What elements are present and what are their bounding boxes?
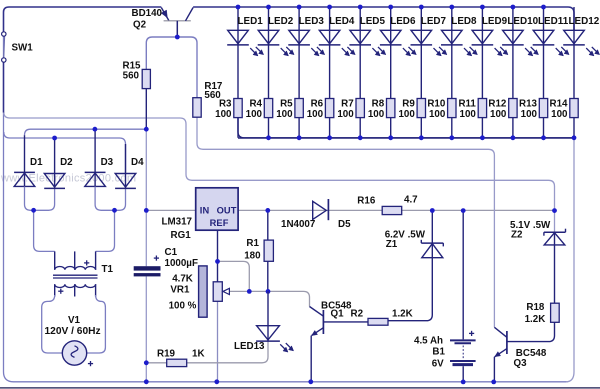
svg-text:LED5: LED5 — [360, 16, 386, 27]
svg-text:LED13: LED13 — [234, 341, 265, 352]
svg-text:LED8: LED8 — [451, 16, 477, 27]
svg-text:LED10: LED10 — [507, 16, 538, 27]
svg-text:R19: R19 — [157, 349, 176, 360]
svg-text:1.2K: 1.2K — [525, 314, 546, 325]
svg-text:LED7: LED7 — [421, 16, 447, 27]
svg-text:4.7: 4.7 — [404, 195, 418, 206]
svg-text:100: 100 — [521, 109, 538, 120]
svg-text:D4: D4 — [131, 157, 144, 168]
svg-text:180: 180 — [244, 251, 261, 262]
svg-text:100: 100 — [215, 109, 232, 120]
svg-text:100: 100 — [460, 109, 477, 120]
svg-text:Z1: Z1 — [386, 239, 398, 250]
svg-text:VR1: VR1 — [170, 284, 190, 295]
svg-text:C1: C1 — [165, 247, 178, 258]
svg-text:LED6: LED6 — [390, 16, 416, 27]
svg-text:R12: R12 — [488, 99, 507, 110]
svg-text:100: 100 — [276, 109, 293, 120]
svg-text:100: 100 — [398, 109, 415, 120]
svg-text:R1: R1 — [246, 238, 259, 249]
svg-text:LED2: LED2 — [268, 16, 294, 27]
svg-text:100: 100 — [368, 109, 385, 120]
svg-text:LED4: LED4 — [329, 16, 355, 27]
svg-text:Q2: Q2 — [133, 20, 147, 31]
svg-text:R13: R13 — [519, 99, 538, 110]
svg-text:LM317: LM317 — [162, 216, 193, 227]
svg-text:1.2K: 1.2K — [392, 308, 413, 319]
svg-text:100: 100 — [551, 109, 568, 120]
svg-text:100: 100 — [246, 109, 263, 120]
svg-text:OUT: OUT — [217, 205, 237, 215]
svg-text:R3: R3 — [219, 99, 232, 110]
svg-text:R11: R11 — [458, 99, 476, 110]
svg-text:100: 100 — [337, 109, 354, 120]
svg-text:LED12: LED12 — [569, 16, 600, 27]
svg-text:R5: R5 — [280, 99, 293, 110]
svg-text:Q1: Q1 — [331, 308, 345, 319]
svg-text:100: 100 — [490, 109, 507, 120]
svg-text:SW1: SW1 — [12, 43, 34, 54]
svg-text:LED11: LED11 — [538, 16, 569, 27]
svg-text:R8: R8 — [372, 99, 385, 110]
svg-text:LED9: LED9 — [482, 16, 508, 27]
svg-text:D3: D3 — [101, 157, 114, 168]
svg-text:T1: T1 — [102, 264, 114, 275]
svg-text:R4: R4 — [249, 99, 262, 110]
svg-text:6V: 6V — [432, 358, 444, 369]
svg-text:1K: 1K — [192, 349, 205, 360]
svg-text:Q3: Q3 — [514, 358, 528, 369]
svg-text:560: 560 — [123, 71, 140, 82]
svg-text:R18: R18 — [526, 302, 545, 313]
svg-text:1000µF: 1000µF — [165, 258, 198, 269]
svg-text:R16: R16 — [357, 195, 376, 206]
svg-text:R2: R2 — [351, 308, 364, 319]
svg-text:100 %: 100 % — [169, 301, 197, 312]
svg-text:REF: REF — [210, 218, 229, 228]
svg-text:D2: D2 — [60, 157, 73, 168]
svg-text:BD140: BD140 — [132, 8, 163, 19]
svg-text:R14: R14 — [550, 99, 569, 110]
svg-text:R6: R6 — [311, 99, 324, 110]
svg-text:R9: R9 — [402, 99, 415, 110]
svg-text:V1: V1 — [68, 315, 81, 326]
svg-text:LED3: LED3 — [299, 16, 325, 27]
svg-text:R7: R7 — [341, 99, 354, 110]
svg-text:4.5 Ah: 4.5 Ah — [414, 335, 443, 346]
svg-text:B1: B1 — [432, 347, 445, 358]
svg-text:D5: D5 — [338, 219, 351, 230]
svg-text:1N4007: 1N4007 — [281, 219, 316, 230]
svg-text:120V / 60Hz: 120V / 60Hz — [45, 326, 101, 337]
svg-text:R10: R10 — [427, 99, 446, 110]
svg-text:IN: IN — [200, 205, 210, 215]
svg-text:100: 100 — [429, 109, 446, 120]
svg-text:D1: D1 — [30, 157, 43, 168]
svg-text:RG1: RG1 — [171, 230, 192, 241]
svg-text:LED1: LED1 — [238, 16, 264, 27]
svg-text:100: 100 — [307, 109, 324, 120]
svg-text:Z2: Z2 — [511, 230, 523, 241]
svg-text:4.7K: 4.7K — [172, 273, 193, 284]
